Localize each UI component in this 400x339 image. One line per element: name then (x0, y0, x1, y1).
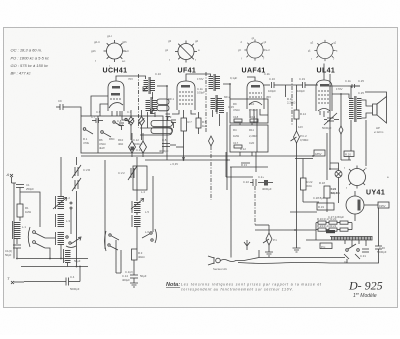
IF transformer MF2 secondary (211, 95, 223, 112)
oscillator coil L4 (131, 199, 144, 214)
wire left coil top (20, 192, 40, 227)
voltage box near UL41 (344, 151, 354, 157)
ballast resistor comb (330, 237, 373, 241)
padder capacitor C12 (diamond) (140, 133, 147, 157)
wire MF2 secondary down (213, 110, 220, 126)
tube socket diagram UF41 (165, 39, 200, 63)
voltage box 185V (314, 150, 325, 156)
mixer switch contacts (113, 118, 133, 126)
AVC network box (230, 125, 268, 152)
UF41 envelope (177, 81, 195, 110)
left ground rail lower (21, 266, 88, 268)
capacitor C8b (166, 114, 171, 121)
terminal A (6, 172, 14, 183)
UL41 envelope (316, 80, 332, 111)
coupling detail box left of CV2 (133, 166, 147, 190)
wire CVR column (76, 157, 78, 165)
capacitor C22 (243, 179, 256, 186)
wire y230 bus (255, 229, 316, 231)
lead stubs under UCH41 (112, 111, 128, 120)
capacitor C9 (56, 99, 70, 110)
wire switch to coils (45, 238, 56, 259)
B+ distribution line (81, 155, 314, 157)
resistor R15 (295, 159, 319, 203)
wire transformer to B+ (330, 74, 387, 98)
top strip labels (155, 72, 270, 95)
volume potentiometer P2 (291, 88, 309, 252)
shield dash-dot det (291, 78, 293, 126)
capacitor C7 (91, 115, 103, 123)
capacitor C24 (345, 79, 364, 88)
mains line upper (238, 258, 345, 261)
output transformer primary (349, 96, 356, 122)
mains line lower (238, 262, 347, 265)
tone capacitor C23 (322, 113, 339, 130)
speaker (373, 97, 387, 135)
oscillator band switch (105, 229, 157, 251)
capacitor C3 label (64, 259, 81, 263)
UCH41 envelope (108, 81, 124, 111)
wire HT feed to rectifier (365, 120, 367, 166)
mains cord wavy (220, 260, 238, 262)
wire antenna branch vertical (13, 183, 15, 259)
filter box (317, 203, 334, 210)
chassis ground oscillator (130, 283, 138, 287)
resistor R11 label (287, 97, 295, 105)
wire UCH41 cathode to box (116, 111, 118, 116)
mains plug (208, 256, 228, 271)
wire AVC column down (230, 167, 232, 258)
capacitor C21 4000pF (258, 175, 273, 191)
wire plate UF41 to MF2 (186, 74, 211, 81)
chassis arrow mark (244, 240, 250, 250)
lower antenna coil (64, 249, 71, 267)
resistor R14 (294, 110, 306, 119)
antenna coil L1 (13, 221, 21, 244)
band range annotations (11, 48, 49, 76)
wire B line down right (378, 208, 380, 243)
wire UL41 cathode resistor R18 (319, 133, 338, 212)
wire to volume pot (255, 224, 269, 226)
antenna coil L2 (56, 196, 65, 209)
wire UL41 plate to transformer (332, 94, 349, 126)
wire lamp top (330, 163, 339, 169)
wire MF1 interstage (148, 92, 156, 120)
IF transformer MF2 primary (209, 74, 221, 91)
Nota annotation (166, 282, 322, 292)
IF transformer MF1 primary (144, 77, 156, 94)
oscillator trimmer C4b (151, 109, 155, 114)
shield dash-dot pot cable (254, 186, 256, 225)
UY41 envelope (346, 191, 378, 214)
mains switch (344, 244, 360, 264)
capacitor C31 (360, 249, 369, 258)
IF transformer MF1 secondary (146, 97, 158, 114)
voltage label box 195V (378, 202, 389, 208)
smoothing network labels (313, 196, 344, 219)
tuning capacitor CV1 (diamond) (128, 110, 134, 140)
lead stubs under UL41 (320, 111, 328, 117)
capacitor C16 100pF (268, 77, 283, 93)
wire UCH41 grid to box (91, 96, 108, 116)
wire box corner down (226, 152, 256, 177)
capacitor C30 5000pF (375, 243, 387, 255)
wire transformer to speaker (362, 100, 373, 118)
junction circles antenna verticals (70, 202, 72, 234)
antenna coil core arrow (53, 198, 67, 210)
resistor R5 (196, 112, 207, 134)
wire det box verticals (240, 123, 252, 156)
resistor R7 (181, 112, 187, 147)
capacitor C4 5000pF (24, 267, 80, 292)
oscillator component box (81, 116, 163, 153)
junction dots on ground bus (16, 83, 342, 267)
shield dash-dot line MF2 (205, 72, 207, 132)
second wave switch (66, 236, 81, 248)
line under box (145, 159, 230, 161)
wire pot chain (256, 109, 258, 152)
junction diamond UL41 plate (339, 126, 343, 160)
detector network box (230, 99, 268, 123)
resistor R1 (17, 197, 31, 221)
wire y212 to heater rows (290, 211, 317, 213)
electrolytic capacitor block (326, 230, 335, 233)
wire heater chain verticals (306, 214, 366, 246)
wire C9 to oscillator box (70, 107, 81, 116)
voltage annotations (22, 77, 364, 234)
model designation D-925 (348, 279, 383, 300)
wire stage2 column (166, 95, 168, 160)
left ground rail upper (18, 258, 88, 260)
capacitor C1(2) 50µF (125, 260, 147, 283)
trimmer CVR (72, 165, 90, 191)
terminal T (7, 276, 24, 284)
antenna coil L3 (56, 214, 65, 227)
rounded coupling outline (140, 128, 172, 135)
shield dash-dot line MF1 (138, 74, 140, 128)
tube socket diagram UAF41 (238, 37, 270, 61)
tube socket diagram UCH41 (91, 34, 129, 68)
padder capacitor C10 (diamond) (118, 123, 136, 157)
MF1 trimmer arrow (143, 86, 148, 91)
wave change switch (28, 227, 45, 248)
capacitor C8 4000pF (159, 138, 184, 153)
oscillator coupling loop 2 (151, 128, 173, 134)
wire antenna coil column (60, 157, 62, 196)
lead stubs under UF41 (172, 110, 196, 114)
UAF41 envelope (247, 81, 264, 109)
lead stubs under UAF41 (250, 109, 268, 123)
wire C16 to C19 (283, 85, 296, 97)
wire C19 junction (296, 85, 298, 88)
wire UAF41 top to C16 (264, 84, 270, 86)
wire AVC line y167 (230, 163, 268, 167)
wire osc coil column (136, 157, 138, 201)
capacitor C8 (117, 119, 124, 130)
wire MF column down (147, 120, 149, 128)
wire plate UCH41 to MF1 (116, 76, 146, 81)
volume potentiometer P1 (diamond) (263, 225, 277, 256)
resistor R3 (132, 249, 145, 260)
capacitor C14 400pF label (122, 274, 130, 282)
PU terminal box (320, 243, 332, 249)
capacitor C2 (5, 245, 21, 259)
wire stage2 down (183, 147, 185, 160)
wire switch drop verticals (116, 240, 121, 273)
wire UL41 grid top (305, 64, 324, 86)
wire MF1 to UF41 grid (157, 86, 167, 95)
wire MF2 to UAF41 grid (223, 77, 255, 99)
tuning capacitor CV2 (diamond) (139, 110, 145, 140)
heater resistor row 1 (316, 217, 352, 224)
trimmer CV2 (118, 166, 137, 180)
wire column x227 (226, 112, 228, 190)
wire osc left column (105, 160, 153, 249)
wire mains bottom (347, 255, 379, 263)
capacitor C19 100pF (296, 77, 318, 93)
junction arrow x211 (209, 136, 214, 200)
MF1 trimmer loops (157, 99, 169, 104)
detector coil (217, 100, 224, 114)
heater resistor row 2 (316, 224, 352, 231)
oscillator coupling loop 1 (151, 121, 173, 127)
junction stub (258, 250, 260, 258)
tube socket diagram UY41 (344, 166, 389, 191)
oscillator coil L5 (132, 215, 141, 227)
capacitor C1 250pF (12, 183, 35, 197)
tube socket diagram UL41 (308, 40, 338, 61)
dial lamp (330, 166, 342, 203)
output transformer secondary (357, 98, 362, 120)
antenna coil L3b (56, 232, 65, 245)
wire transformer down (341, 120, 351, 160)
capacitor C11b (167, 115, 176, 128)
wire B+ column (329, 86, 331, 169)
